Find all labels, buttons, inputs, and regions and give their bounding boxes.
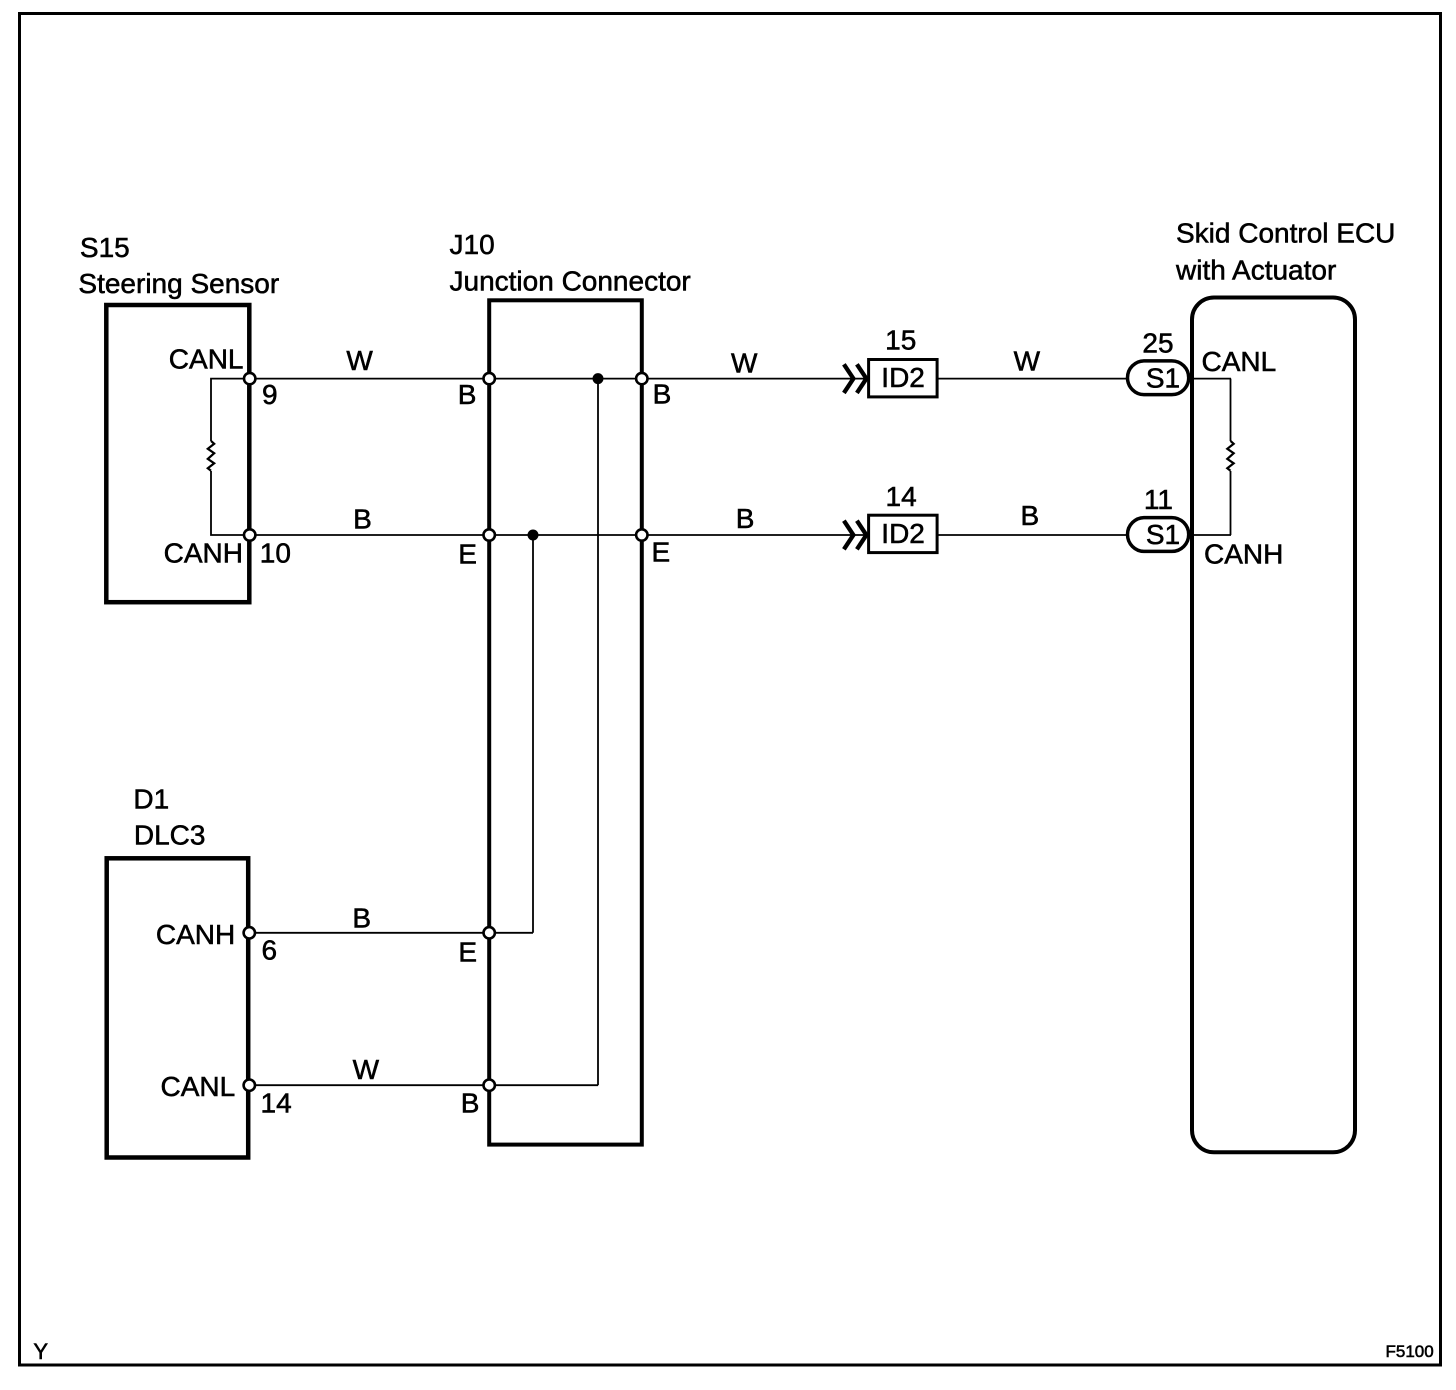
- junction dot on CANL row at x=598: [593, 373, 604, 384]
- wire S15 resistor to CANH pin: [211, 471, 250, 535]
- svg-text:CANL: CANL: [1202, 346, 1277, 377]
- svg-text:14: 14: [261, 1088, 292, 1119]
- connector ID2 box row 1 (pin 15): [869, 360, 938, 397]
- svg-text:14: 14: [886, 481, 917, 512]
- resistor R1 (terminating resistor in S15): [208, 441, 214, 471]
- svg-text:E: E: [458, 937, 477, 968]
- pin circle J10 left E row2: [484, 529, 495, 540]
- pin circle J10 B row4: [484, 1080, 495, 1091]
- Skid Control ECU box: [1192, 298, 1355, 1153]
- svg-text:W: W: [353, 1054, 380, 1085]
- pin circle DLC3 pin 6: [244, 927, 255, 938]
- svg-text:15: 15: [885, 325, 916, 356]
- connector S1 oval row 1 (pin 25): [1128, 361, 1189, 395]
- svg-text:6: 6: [262, 935, 278, 966]
- svg-text:J10: J10: [450, 229, 495, 260]
- svg-text:25: 25: [1142, 328, 1173, 359]
- svg-text:ID2: ID2: [881, 362, 925, 393]
- connector S1 oval row 2 (pin 11): [1128, 518, 1189, 552]
- svg-text:B: B: [352, 902, 371, 933]
- svg-text:10: 10: [260, 538, 291, 569]
- wire DLC3 CANH row to J10 pin E: [249, 932, 533, 934]
- pin circle S15 pin 10: [244, 529, 255, 540]
- svg-text:DLC3: DLC3: [134, 820, 206, 851]
- pin circle DLC3 pin 14: [244, 1080, 255, 1091]
- svg-text:F5100: F5100: [1386, 1342, 1434, 1361]
- wire S15 CANL internal branch to resistor: [211, 379, 250, 441]
- svg-text:S1: S1: [1146, 519, 1180, 550]
- svg-text:with Actuator: with Actuator: [1175, 254, 1336, 285]
- svg-text:CANH: CANH: [164, 538, 243, 569]
- J10 junction connector box: [489, 300, 642, 1144]
- wire vertical junction branch x=598: [597, 379, 599, 1086]
- svg-text:CANH: CANH: [1204, 539, 1283, 570]
- pin circle J10 left B row1: [484, 373, 495, 384]
- svg-text:B: B: [1021, 500, 1040, 531]
- pin circle J10 right B row1: [636, 373, 647, 384]
- wire CANH row: S15 pin 10 to ECU (B wire): [250, 534, 1231, 536]
- svg-text:CANL: CANL: [169, 344, 244, 375]
- svg-text:W: W: [731, 347, 758, 378]
- wire ECU resistor to CANH: [1230, 471, 1232, 535]
- svg-text:Junction Connector: Junction Connector: [450, 266, 691, 297]
- svg-text:ID2: ID2: [881, 518, 925, 549]
- wire vertical junction branch x=533: [532, 535, 534, 933]
- pin circle J10 E row3: [484, 927, 495, 938]
- svg-text:E: E: [652, 537, 671, 568]
- svg-text:Skid Control ECU: Skid Control ECU: [1176, 217, 1395, 248]
- svg-text:B: B: [461, 1088, 480, 1119]
- wire DLC3 CANL row to J10 pin B: [249, 1084, 598, 1086]
- connector arrows row 1: [844, 364, 867, 393]
- svg-text:S15: S15: [80, 232, 130, 263]
- resistor R2 (terminating resistor in ECU): [1227, 441, 1233, 471]
- svg-text:CANL: CANL: [160, 1071, 235, 1102]
- svg-text:E: E: [458, 539, 477, 570]
- svg-text:B: B: [458, 379, 477, 410]
- svg-text:S1: S1: [1146, 363, 1180, 394]
- pin circle S15 pin 9: [244, 373, 255, 384]
- svg-text:9: 9: [262, 379, 278, 410]
- pin circle J10 right E row2: [636, 529, 647, 540]
- svg-text:CANH: CANH: [156, 919, 235, 950]
- svg-text:Steering Sensor: Steering Sensor: [78, 268, 279, 299]
- D1 DLC3 box: [107, 858, 249, 1157]
- svg-text:W: W: [1014, 345, 1041, 376]
- S15 steering sensor box: [106, 305, 249, 602]
- wire CANL row: S15 pin 9 to ECU (W wire): [250, 378, 1231, 380]
- connector ID2 box row 2 (pin 14): [869, 515, 938, 552]
- svg-text:W: W: [346, 345, 373, 376]
- svg-text:Y: Y: [33, 1339, 48, 1364]
- wire ECU internal CANL branch to resistor: [1230, 379, 1232, 441]
- svg-text:D1: D1: [133, 784, 169, 815]
- svg-text:B: B: [653, 379, 672, 410]
- junction dot on CANH row at x=533: [528, 530, 539, 541]
- svg-text:B: B: [353, 503, 372, 534]
- svg-text:B: B: [736, 503, 755, 534]
- connector arrows row 2: [844, 521, 867, 550]
- svg-text:11: 11: [1144, 484, 1173, 515]
